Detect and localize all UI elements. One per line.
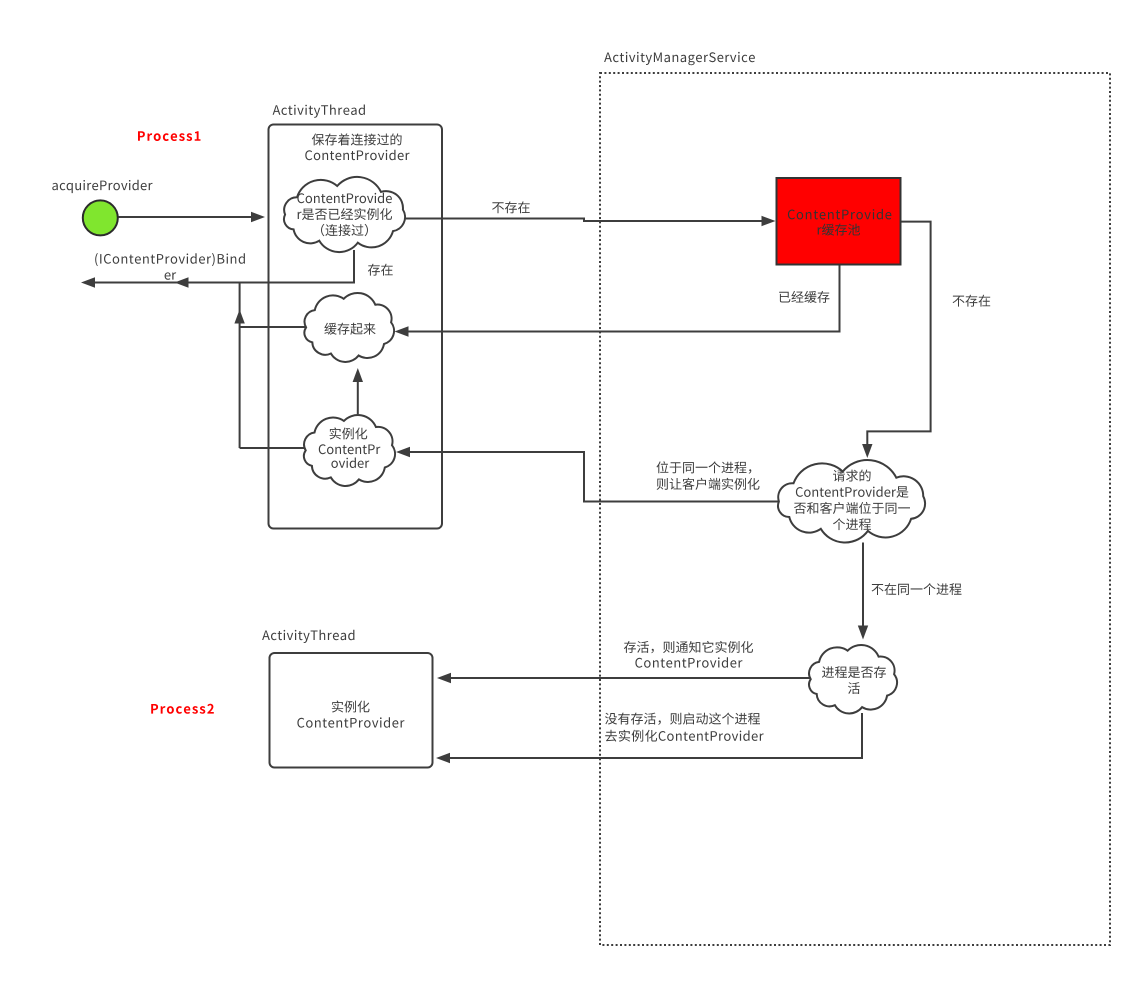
label ActivityThread (top) — [273, 105, 365, 118]
edge label 存在 — [368, 264, 393, 276]
arrowhead cloud3 to cloud2 — [353, 368, 363, 382]
cloud C4 text line3 — [794, 502, 910, 514]
arrowhead return mid — [175, 277, 189, 287]
cache pool text line2 — [818, 224, 860, 236]
cloud C1 text line2 — [298, 208, 392, 220]
process box ActivityThread P2 — [270, 653, 433, 768]
edge label 位于同一个进程 line2 — [657, 478, 760, 490]
wire acquireProvider to ActivityThread — [119, 216, 253, 218]
label ActivityManagerService — [604, 52, 755, 65]
wire cloud4 down to cloud5 — [862, 543, 864, 628]
edge label (IContentProvider)Binder line1 — [95, 253, 245, 266]
wire vertical merge line — [239, 283, 241, 449]
cloud C3 text line2 — [319, 444, 381, 454]
decision cloud C4 (请求的ContentProvider是否同一进程) — [778, 460, 925, 542]
box heading line2 — [305, 150, 409, 161]
cloud C1 text line3 — [321, 224, 368, 236]
label acquireProvider — [52, 180, 152, 193]
Process2 box text line2 — [297, 717, 404, 728]
label Process2 — [151, 704, 214, 714]
cache pool text line1 — [788, 209, 892, 220]
wire 存在 branch return — [93, 250, 354, 283]
cloud C4 text line4 — [833, 518, 871, 530]
process box ActivityThread P1 — [269, 125, 443, 529]
edge label 存活 line2 — [635, 657, 742, 668]
wire cache pool right branch (不存在) — [867, 222, 930, 446]
cloud C5 text line2 — [848, 682, 860, 694]
arrowhead up on merge line — [234, 310, 244, 324]
dashed container ActivityManagerService — [600, 73, 1110, 945]
arrowhead into Process2 box upper — [437, 673, 451, 683]
cloud C4 text line2 — [796, 486, 909, 498]
arrowhead return far left — [81, 277, 95, 287]
cloud C3 text line3 — [331, 458, 369, 469]
process cloud C2 (缓存起来) — [304, 293, 394, 362]
wire cloud5 to Process2 box (存活) — [449, 677, 810, 679]
edge label 不存在 (top) — [492, 201, 530, 213]
arrowhead into ActivityThread box — [251, 212, 265, 222]
edge label 没有存活 line1 — [605, 713, 760, 725]
decision cloud C1 (是否已实例化) — [284, 177, 405, 252]
label ActivityThread (bottom) — [262, 630, 354, 643]
arrowhead into Process2 box lower — [436, 753, 450, 763]
arrowhead into cache pool — [762, 216, 776, 226]
decision cloud C5 (进程是否存活) — [809, 645, 897, 713]
edge label (IContentProvider)Binder line2 — [165, 272, 177, 279]
edge label 不在同一个进程 — [872, 583, 962, 595]
edge label 已经缓存 — [779, 291, 829, 303]
cloud C1 text line1 — [297, 193, 392, 204]
wire cloud2 left link — [240, 326, 306, 328]
cloud C4 text line1 — [833, 470, 871, 482]
arrowhead into cloud4 top — [862, 444, 872, 458]
label Process1 — [138, 131, 201, 141]
wire cache pool down to cloud2 (已经缓存) — [407, 265, 840, 332]
box heading line1 — [312, 133, 402, 145]
process cloud C3 (实例化ContentProvider) — [304, 415, 395, 486]
Process2 box text line1 — [332, 701, 370, 713]
arrowhead into cloud5 top — [858, 626, 868, 640]
edge label 位于同一个进程 line1 — [657, 461, 752, 473]
terminator red ContentProvider cache pool — [777, 178, 901, 265]
edge label 没有存活 line2 — [605, 730, 764, 742]
edge label 不存在 (right) — [953, 295, 991, 307]
cloud C3 text line1 — [330, 427, 368, 439]
wire cloud3 up to cloud2 — [357, 378, 359, 414]
wire cloud5 bottom to Process2 box (没有存活) — [448, 713, 862, 758]
arrowhead into cloud3 — [396, 447, 410, 457]
edge label 存活 line1 — [624, 641, 753, 653]
wire cloud4 to cloud3 (同一进程) — [408, 452, 778, 502]
arrowhead into cloud2 — [395, 326, 409, 336]
start circle acquireProvider — [83, 200, 118, 235]
wire cloud3 left link — [240, 447, 305, 449]
cloud C2 text — [324, 323, 375, 335]
wire cloud1 to cache pool (不存在) — [405, 219, 763, 222]
cloud C5 text line1 — [822, 666, 886, 678]
